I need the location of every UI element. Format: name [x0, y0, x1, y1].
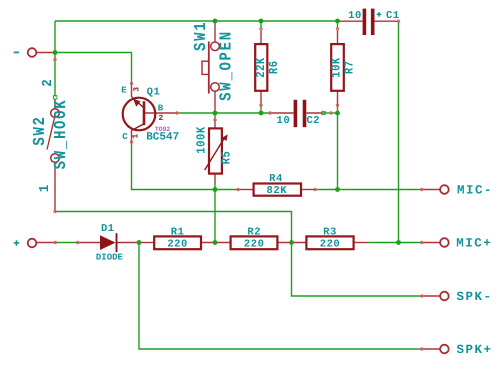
- svg-text:SW1: SW1: [192, 21, 211, 51]
- svg-text:MIC-: MIC-: [457, 184, 493, 198]
- junction R7 top / C1: [335, 19, 340, 24]
- svg-text:10K: 10K: [330, 57, 344, 78]
- pin end Q1 base: [176, 112, 179, 115]
- svg-text:220: 220: [167, 238, 188, 250]
- polarity plus C1: [377, 12, 382, 17]
- junction R6 bottom: [259, 111, 264, 116]
- svg-text:Q1: Q1: [147, 86, 161, 98]
- value 10 C2: [277, 115, 291, 127]
- label Q1: [147, 86, 161, 98]
- wire red R4 left pin: [238, 189, 254, 191]
- wire red SPK+ tail: [422, 348, 441, 350]
- wire R7 bottom stub: [337, 105, 339, 113]
- pin number 2 Q1: [158, 114, 163, 123]
- svg-text:10: 10: [348, 10, 362, 22]
- wire left vertical from top rail to SW2 pin2: [54, 21, 56, 97]
- wire red R7 bottom pin: [337, 91, 339, 105]
- pin end SPK+: [420, 348, 423, 351]
- svg-text:1: 1: [37, 185, 52, 193]
- wire red Q1 emitter pin: [131, 83, 133, 97]
- wire R7 bottom down to MIC- rail: [337, 113, 339, 190]
- wire red SW2 pin2: [54, 99, 56, 110]
- wire red MIC- tail: [422, 189, 441, 191]
- pin end R6 bottom: [260, 104, 263, 107]
- label C1: [386, 10, 400, 22]
- wire red R1 left pin: [139, 242, 154, 244]
- transistor Q1: [123, 97, 156, 131]
- pin end R4 right: [314, 188, 317, 191]
- wire red R2 to R3: [277, 242, 306, 244]
- svg-text:SW_OPEN: SW_OPEN: [218, 30, 237, 101]
- switch SW1: [202, 42, 219, 94]
- wire red C2 right pin: [307, 112, 324, 114]
- capacitor C2: [294, 100, 307, 127]
- pin end R5 top: [214, 119, 217, 122]
- pin end plus left: [54, 241, 57, 244]
- pin end C2 left: [269, 112, 272, 115]
- wire R4 right to MIC-: [315, 189, 422, 191]
- label SW_OPEN: [218, 30, 237, 101]
- wire red R7 top pin: [337, 30, 339, 45]
- svg-text:R4: R4: [269, 173, 283, 185]
- svg-text:SPK-: SPK-: [457, 290, 493, 304]
- diode D1: [100, 233, 117, 252]
- svg-text:22K: 22K: [255, 57, 269, 78]
- wire end square SW2 pin2: [54, 96, 57, 99]
- junction R2 R3 SPK- vertical: [289, 240, 294, 245]
- svg-text:R1: R1: [171, 226, 185, 238]
- pin end R7 top: [336, 28, 339, 31]
- svg-text:R6: R6: [267, 60, 281, 74]
- wire red D1 cathode pin: [117, 242, 139, 244]
- wire Q1 collector down and right to R4: [132, 143, 239, 190]
- wire minus node to Q1 emitter: [55, 53, 132, 84]
- label minus: [14, 52, 19, 54]
- pin name C: [122, 132, 128, 142]
- junction SW1 top: [213, 19, 218, 24]
- label DIODE: [96, 252, 124, 262]
- connector minus circle: [28, 48, 37, 57]
- junction MIC+ rail at C1 vertical: [396, 240, 401, 245]
- value 220 R1: [167, 238, 188, 250]
- svg-text:R2: R2: [247, 226, 261, 238]
- label R1: [171, 226, 185, 238]
- label R2: [247, 226, 261, 238]
- svg-text:82K: 82K: [267, 185, 288, 197]
- label R5: [220, 151, 234, 165]
- pin end C1 right: [397, 20, 400, 23]
- wire red MIC+ tail: [422, 242, 441, 244]
- svg-text:R5: R5: [220, 151, 234, 165]
- wire top rail: [55, 20, 338, 22]
- wire end square C2 right: [322, 111, 325, 114]
- wire Q1 base to SW1/R6 rail: [177, 112, 270, 114]
- connector plus circle: [28, 239, 37, 248]
- wire red SW1 bottom pin: [214, 91, 216, 113]
- svg-text:BC547: BC547: [146, 132, 179, 144]
- svg-text:C1: C1: [386, 10, 400, 22]
- wire R7 top stub: [337, 21, 339, 29]
- wire R5 bottom down to R1/R2 junction: [214, 184, 216, 243]
- wire red plus connector pin: [37, 242, 56, 244]
- value 220 R3: [320, 238, 341, 250]
- svg-text:D1: D1: [101, 223, 115, 235]
- wire SW2 pin1 rail right, down, to SPK-: [55, 212, 422, 297]
- pin end MIC+: [420, 241, 423, 244]
- wire C1 right vertical down to MIC+ rail: [398, 21, 400, 242]
- resistor R7: [331, 44, 344, 91]
- pin end Q1 emitter: [130, 82, 133, 85]
- connector SPK+ circle: [440, 345, 449, 354]
- svg-text:MIC+: MIC+: [456, 237, 492, 251]
- pin end SW2 pin1: [54, 210, 57, 213]
- junction R6 top: [259, 19, 264, 24]
- pin number 1 SW2: [37, 185, 52, 193]
- label SPK+: [457, 343, 493, 357]
- resistor R3: [306, 236, 353, 249]
- capacitor C1: [363, 9, 375, 35]
- resistor R2: [231, 236, 278, 249]
- svg-text:1: 1: [132, 134, 141, 139]
- connector SPK- circle: [440, 292, 449, 301]
- wire R6 bottom stub: [260, 105, 262, 113]
- junction at minus node: [53, 50, 58, 55]
- label MIC+: [456, 237, 492, 251]
- pin end D1 anode: [76, 241, 79, 244]
- wire red D1 anode pin: [78, 242, 101, 244]
- value 100K R5: [195, 126, 209, 154]
- wire R3 right to MIC+: [368, 242, 422, 244]
- junction D1 cathode: [137, 240, 142, 245]
- wire SW1 bottom stub to R5 top: [214, 113, 216, 120]
- svg-text:SPK+: SPK+: [457, 343, 493, 357]
- pin end C2 right: [330, 112, 333, 115]
- wire red R4 right pin: [301, 189, 315, 191]
- pin name B: [158, 103, 164, 113]
- label R3: [323, 226, 337, 238]
- wire red Q1 base pin: [145, 112, 177, 114]
- wire R6 top stub: [260, 21, 262, 29]
- svg-text:B: B: [158, 103, 164, 113]
- label R7: [343, 60, 357, 74]
- svg-text:SW_HOOK: SW_HOOK: [52, 99, 71, 170]
- label SW_HOOK: [52, 99, 71, 170]
- pin number 1 Q1: [132, 134, 141, 139]
- svg-text:R7: R7: [343, 60, 357, 74]
- junction R7 bottom: [335, 111, 340, 116]
- svg-text:220: 220: [320, 238, 341, 250]
- connector MIC+ circle: [440, 238, 449, 247]
- pin end R7 bottom: [336, 104, 339, 107]
- potentiometer R5: [205, 128, 228, 173]
- label plus: [14, 240, 19, 245]
- wire C2 right to R7 bottom: [324, 112, 338, 114]
- junction MIC- rail at R7 vertical: [335, 187, 340, 192]
- wire red SW2 pin1: [54, 163, 56, 212]
- svg-text:220: 220: [244, 238, 265, 250]
- label BC547: [146, 132, 179, 144]
- pin number 2 SW2: [40, 79, 55, 87]
- connector MIC- circle: [440, 185, 449, 194]
- pin end R4 left: [237, 188, 240, 191]
- svg-text:C2: C2: [306, 115, 320, 127]
- svg-text:100K: 100K: [195, 126, 209, 154]
- value 22K R6: [255, 57, 269, 78]
- value 10 C1: [348, 10, 362, 22]
- wire red R6 bottom pin: [260, 91, 262, 105]
- svg-text:3: 3: [132, 87, 141, 92]
- svg-text:C: C: [122, 132, 128, 142]
- label SPK-: [457, 290, 493, 304]
- wire red SW1 top pin: [214, 21, 216, 43]
- wire red R1 to R2: [201, 242, 231, 244]
- junction R5 bottom: [213, 187, 218, 192]
- svg-text:SW2: SW2: [31, 115, 50, 145]
- wire red C2 left pin: [270, 112, 294, 114]
- svg-text:10: 10: [277, 115, 291, 127]
- pin name E: [121, 86, 127, 96]
- wire red R6 top pin: [260, 30, 262, 45]
- label C2: [306, 115, 320, 127]
- svg-text:2: 2: [40, 79, 55, 87]
- wire D1 cathode junction down and right to SPK+: [139, 243, 422, 350]
- wire red Q1 collector pin: [131, 131, 133, 143]
- resistor R4: [254, 184, 301, 196]
- pin end SPK-: [420, 295, 423, 298]
- label D1: [101, 223, 115, 235]
- wire red C1 left pin: [338, 20, 363, 22]
- label SW1: [192, 21, 211, 51]
- value 82K R4: [267, 185, 288, 197]
- label R4: [269, 173, 283, 185]
- resistor R1: [154, 236, 201, 249]
- pin end R6 top: [260, 28, 263, 31]
- resistor R6: [255, 44, 267, 91]
- pin number 3 Q1: [132, 87, 141, 92]
- wire red R5 top pin: [214, 120, 216, 128]
- value 10K R7: [330, 57, 344, 78]
- svg-text:2: 2: [158, 114, 163, 123]
- junction SW1 bottom base rail: [213, 111, 218, 116]
- label TO92: [155, 126, 171, 133]
- switch SW2: [47, 109, 59, 163]
- pin end below minus junction: [54, 58, 57, 61]
- wire plus stub: [55, 242, 77, 244]
- pin end Q1 collector: [130, 141, 133, 144]
- wire red C1 right pin: [375, 20, 399, 22]
- wire red R3 right pin: [354, 242, 369, 244]
- wire red minus connector to junction: [37, 52, 56, 54]
- svg-text:R3: R3: [323, 226, 337, 238]
- label MIC-: [457, 184, 493, 198]
- value 220 R2: [244, 238, 265, 250]
- svg-text:E: E: [121, 86, 127, 96]
- junction R1 R2: [213, 240, 218, 245]
- pin end MIC-: [420, 188, 423, 191]
- label R6: [267, 60, 281, 74]
- label SW2: [31, 115, 50, 145]
- wire red SPK- tail: [422, 295, 441, 297]
- svg-text:DIODE: DIODE: [96, 252, 124, 262]
- wire red R5 bottom pin: [214, 174, 216, 184]
